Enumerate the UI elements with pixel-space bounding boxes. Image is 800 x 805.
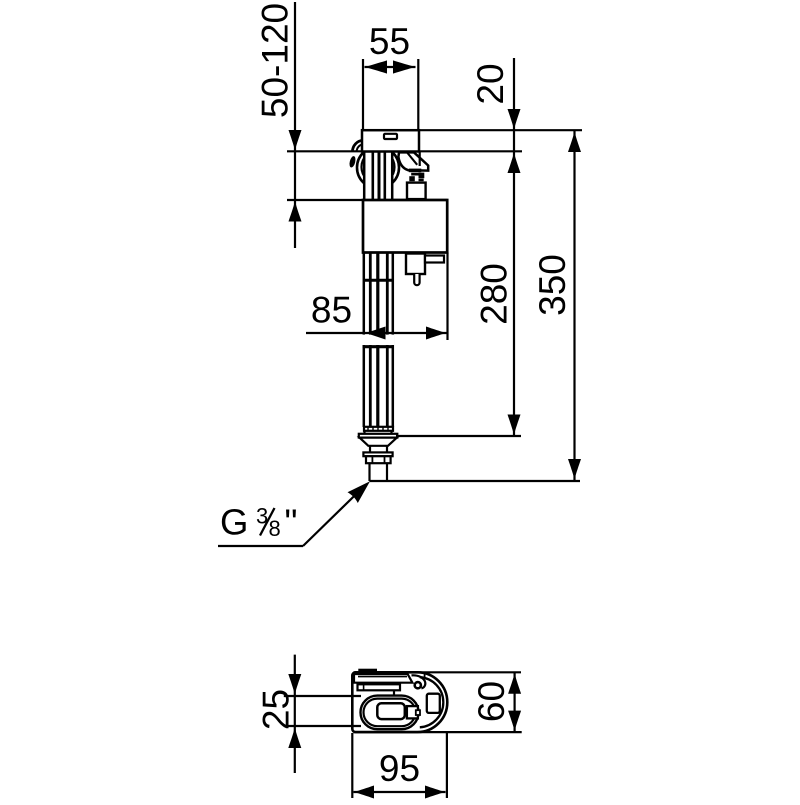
upper tube ribs xyxy=(364,152,392,201)
leader arrowhead xyxy=(348,481,371,503)
node ref line y130 (tank top edge extended right) xyxy=(362,129,582,131)
svg-text:": " xyxy=(285,502,298,543)
node ref line y481 (350 bottom / pipe end) xyxy=(370,480,581,482)
float arm assembly xyxy=(398,152,428,170)
node ref line y200 (float body top level) xyxy=(287,199,447,201)
adjuster screw lower-right block xyxy=(419,179,424,182)
retaining hook outer arc xyxy=(352,140,363,152)
svg-text:50-120: 50-120 xyxy=(255,3,296,118)
collar hatches xyxy=(368,427,388,431)
extension line below cap right corner xyxy=(419,152,421,167)
inlet pipe G3/8 xyxy=(368,463,370,481)
retaining hook teardrop tip xyxy=(348,156,356,169)
plan outline xyxy=(352,672,447,732)
flange washer xyxy=(359,434,398,438)
plan bottom edge extension xyxy=(354,731,522,733)
float body (tank) xyxy=(363,200,447,253)
dim 55 ext lines xyxy=(362,59,364,130)
outlet box below float body xyxy=(406,254,425,275)
plan sub band xyxy=(358,684,401,690)
svg-text:350: 350 xyxy=(532,254,573,316)
svg-text:55: 55 xyxy=(369,21,410,62)
flare cone xyxy=(360,438,397,446)
arm inner line xyxy=(408,153,418,165)
svg-text:G: G xyxy=(220,502,248,543)
plan small square tab xyxy=(416,710,420,715)
svg-text:95: 95 xyxy=(379,748,420,789)
plan top edge extension xyxy=(354,671,522,673)
pivot bar lower xyxy=(411,173,420,176)
plan black tab xyxy=(358,669,377,673)
plan inner arc top join xyxy=(424,673,426,678)
plan float oval inner xyxy=(364,699,416,727)
float circle behind tube xyxy=(357,147,399,189)
dim 350 line xyxy=(573,131,575,481)
dim 25 ext lines xyxy=(284,695,361,697)
svg-text:280: 280 xyxy=(474,263,515,325)
leader line G3/8 xyxy=(218,545,303,547)
node ref line y151 (flange level) xyxy=(287,150,522,152)
lower tube ribs xyxy=(364,253,393,428)
dim 20-280 line xyxy=(513,58,515,436)
dim 95 ext lines xyxy=(351,733,353,798)
neck below cone xyxy=(369,446,371,453)
upper tube body xyxy=(364,152,392,201)
adjuster screw right block xyxy=(419,173,425,179)
dim 55 line xyxy=(365,66,416,68)
hex nut facets xyxy=(371,456,373,463)
plan right rect xyxy=(427,694,440,713)
tube joint tick lower xyxy=(363,345,394,348)
retaining hook inner arc xyxy=(357,144,364,152)
plan sub band tick xyxy=(363,684,365,690)
plan sub band to oval join xyxy=(393,690,395,696)
dim 60 line xyxy=(513,672,515,732)
svg-text:20: 20 xyxy=(470,63,511,104)
plan small square xyxy=(407,706,418,718)
dim 95 line xyxy=(354,791,446,793)
threaded collar xyxy=(364,427,393,431)
plan window rounded rect xyxy=(377,703,405,719)
outlet pin xyxy=(414,274,419,285)
dim 85 line xyxy=(306,332,447,334)
node ref line y436 (280 bottom) xyxy=(396,435,521,437)
plan cap band xyxy=(354,674,412,683)
pivot bar upper xyxy=(409,169,422,173)
svg-text:8: 8 xyxy=(269,516,281,541)
collar neck sides xyxy=(363,431,365,434)
plan hook curl xyxy=(412,675,426,688)
dim 50-120 line xyxy=(294,2,296,248)
svg-text:85: 85 xyxy=(311,290,352,331)
tube joint tick upper xyxy=(363,279,394,282)
tube gap at dimension crossing xyxy=(362,335,394,345)
svg-text:25: 25 xyxy=(256,689,297,730)
svg-text:60: 60 xyxy=(471,681,512,722)
hex nut xyxy=(366,456,391,463)
cap slot xyxy=(384,134,397,139)
dim 85 ext line xyxy=(446,253,448,341)
plan hook ring xyxy=(415,682,421,688)
plan cap band inner line xyxy=(358,676,407,678)
outlet side tab xyxy=(425,256,444,263)
lower tube body xyxy=(364,253,393,428)
plan inner arc xyxy=(420,677,444,727)
valve cap xyxy=(362,130,419,151)
adjuster screw left block xyxy=(409,176,415,181)
float circle inner arc xyxy=(362,151,395,184)
dim 25 line xyxy=(294,655,296,773)
locknut washer xyxy=(363,452,392,456)
plan float oval outer xyxy=(361,696,419,730)
small cylinder under arm xyxy=(407,183,426,200)
